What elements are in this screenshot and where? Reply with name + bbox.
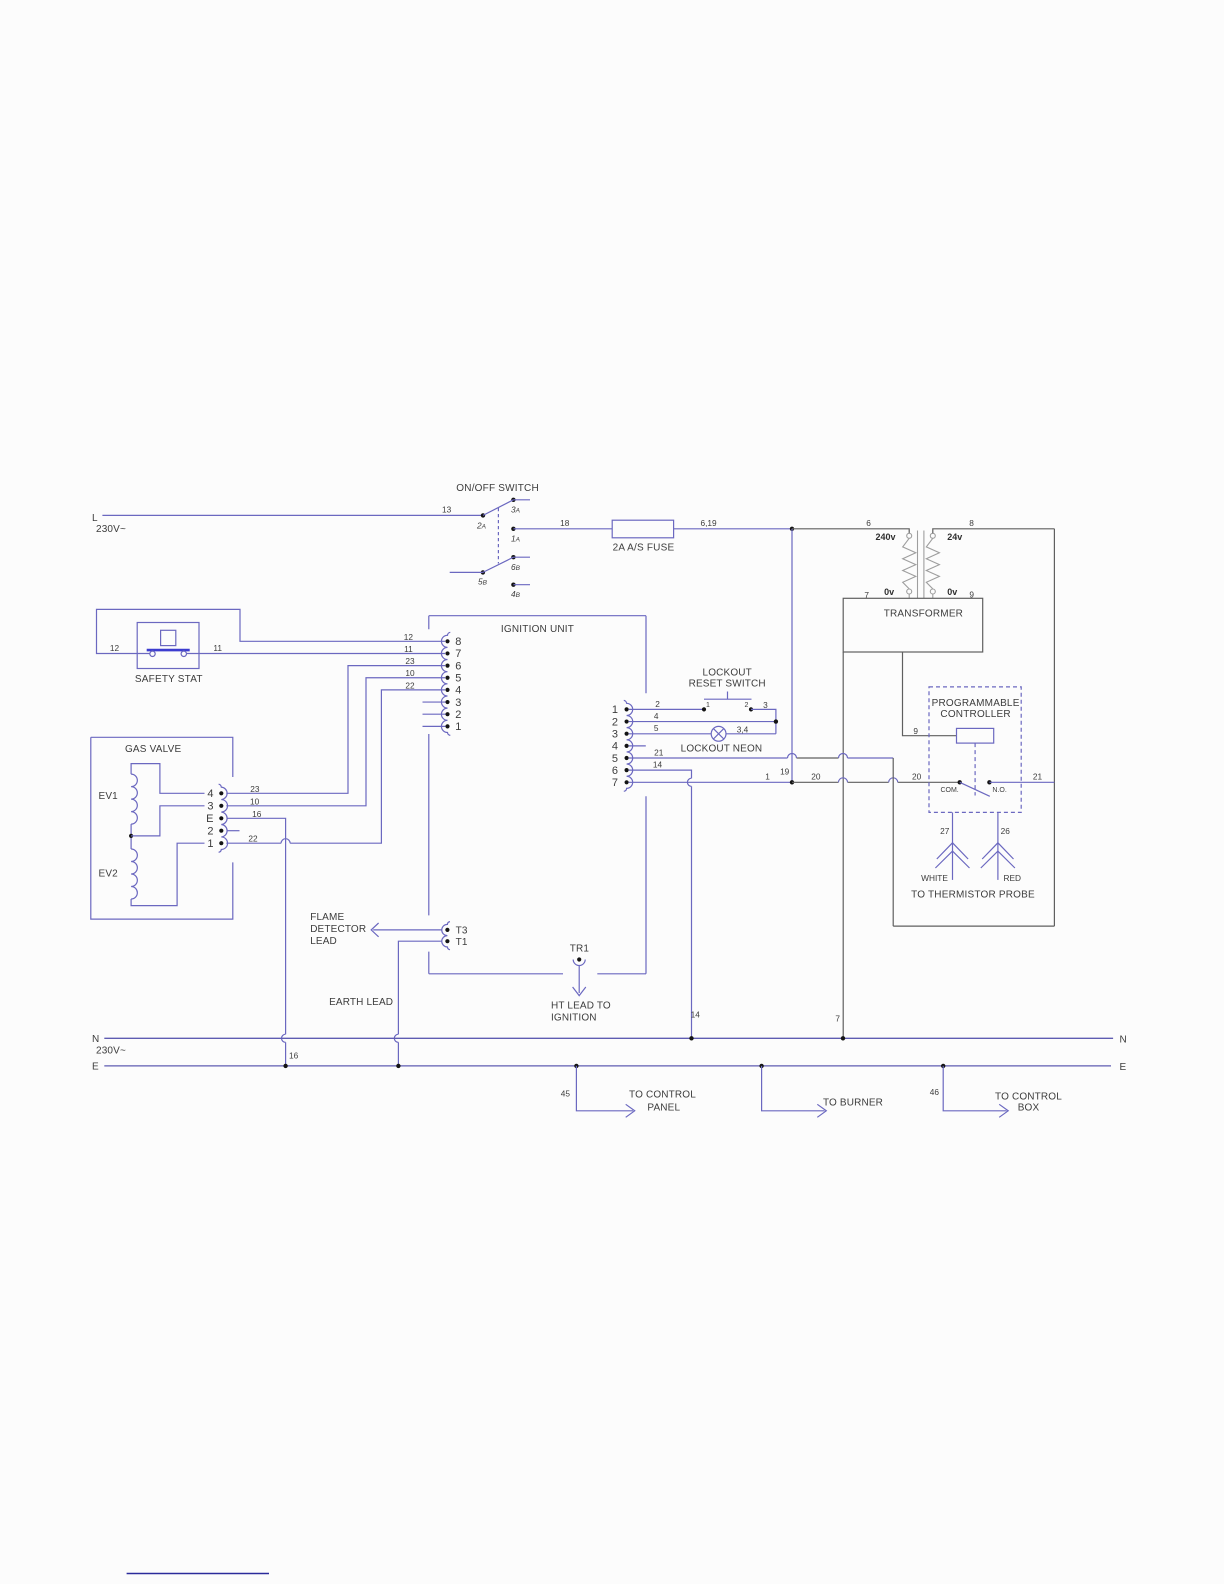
ignition output pin 4: [612, 741, 629, 753]
wire 3 reset switch to junction: [751, 709, 776, 733]
svg-text:1: 1: [455, 721, 461, 733]
svg-text:11: 11: [213, 643, 222, 653]
wire 21 vertical thermistor box left: [892, 758, 894, 926]
svg-text:230V~: 230V~: [96, 524, 126, 535]
wire 20 hop over wire 21 vertical: [889, 778, 898, 783]
svg-text:10: 10: [405, 668, 415, 678]
HT lead label: [551, 1001, 611, 1024]
svg-text:1: 1: [706, 702, 710, 709]
gas valve pin E: [206, 813, 223, 825]
wire 22 gas valve pin1 to ignition pin 4: [226, 690, 445, 843]
svg-text:EV2: EV2: [99, 869, 119, 880]
transformer T1 secondary top terminal: [930, 533, 935, 538]
transformer T1 primary winding: [903, 538, 916, 589]
svg-text:0v: 0v: [884, 587, 894, 597]
svg-text:HT LEAD TO: HT LEAD TO: [551, 1001, 611, 1012]
wire 14 hop over wire 1: [687, 778, 691, 786]
relay blade: [960, 782, 990, 796]
red lead chevron arrow: [981, 843, 1015, 880]
svg-text:PROGRAMMABLE: PROGRAMMABLE: [932, 698, 1020, 709]
gas valve connector scallops: [219, 784, 228, 852]
wire 2 pin1 to reset switch: [629, 708, 704, 710]
svg-text:6,19: 6,19: [701, 518, 718, 528]
svg-text:EV1: EV1: [99, 791, 119, 802]
node L 230V live terminal label: [92, 513, 126, 535]
wire 8 secondary to right rail: [933, 529, 1055, 533]
svg-text:PANEL: PANEL: [647, 1103, 680, 1114]
ignition output pin 2: [612, 716, 629, 728]
safety stat adjuster square: [161, 630, 176, 645]
wire 4 pin2 to junction: [629, 721, 776, 723]
wire junction to valve pin 3: [131, 806, 204, 836]
switch S1 contact 2A: [481, 513, 485, 517]
svg-text:16: 16: [289, 1051, 299, 1061]
switch S1 contact 1A: [511, 527, 515, 531]
wire into 5B: [450, 571, 483, 573]
wire 11 stat to ignition pin 7: [187, 653, 446, 655]
safety stat contact left: [150, 651, 155, 656]
wire 45 drop to control panel: [574, 1064, 635, 1118]
gas valve pin 4: [207, 788, 223, 800]
switch S1 blade 5B-6B: [483, 557, 514, 572]
wire right rail vertical: [1053, 529, 1055, 926]
svg-text:E: E: [206, 813, 213, 825]
to control panel label: [629, 1090, 696, 1114]
flame detector arrow: [371, 923, 442, 937]
svg-text:T1: T1: [456, 937, 468, 948]
wire L to on/off switch contact 2A: [102, 514, 483, 516]
relay coil U1: [957, 728, 994, 743]
wire EV1 top lead to valve pin 4: [131, 764, 204, 794]
ignition pin 6: [445, 660, 461, 672]
transformer T1 enclosure box: [843, 598, 983, 652]
svg-text:5B: 5B: [478, 577, 488, 587]
TR1 terminal: [573, 957, 585, 965]
reset switch contact left: [702, 707, 706, 711]
svg-text:RESET SWITCH: RESET SWITCH: [689, 679, 766, 690]
ignition unit box: [429, 616, 646, 974]
svg-text:WHITE: WHITE: [921, 873, 948, 883]
svg-text:TR1: TR1: [570, 944, 590, 955]
svg-text:3: 3: [455, 697, 461, 709]
safety stat box: [137, 623, 199, 669]
flame detector lead label: [310, 912, 366, 947]
svg-text:TO BURNER: TO BURNER: [823, 1098, 883, 1109]
wire stub from 4B: [513, 584, 530, 586]
svg-text:1A: 1A: [511, 534, 520, 544]
junction wire 14 on N rail: [689, 1036, 693, 1040]
svg-text:0v: 0v: [947, 587, 957, 597]
programmable controller dashed outline: [929, 687, 1021, 813]
ignition output pin 6: [612, 765, 629, 777]
svg-text:6: 6: [866, 518, 871, 528]
svg-text:TO THERMISTOR PROBE: TO THERMISTOR PROBE: [911, 889, 1035, 900]
svg-text:45: 45: [561, 1089, 571, 1099]
svg-text:3A: 3A: [511, 505, 520, 515]
svg-text:10: 10: [250, 796, 260, 806]
svg-text:12: 12: [404, 632, 414, 642]
svg-text:4B: 4B: [511, 589, 521, 599]
lockout reset switch title: [689, 668, 766, 690]
fuse F1 body: [612, 520, 673, 538]
svg-text:26: 26: [1001, 826, 1011, 836]
svg-text:DETECTOR: DETECTOR: [310, 924, 366, 935]
ignition pin 8: [445, 636, 461, 648]
wire 16 hop over N rail: [281, 1034, 285, 1042]
svg-text:22: 22: [248, 834, 258, 844]
svg-text:FLAME: FLAME: [310, 912, 344, 923]
wire EV2 bottom lead to valve pin 1: [131, 843, 204, 905]
relay coil dashed link to contact: [974, 743, 976, 795]
gas valve box: [91, 737, 233, 919]
switch S1 contact 5B: [481, 570, 485, 574]
svg-text:14: 14: [691, 1010, 701, 1020]
svg-text:3,4: 3,4: [737, 725, 749, 735]
svg-text:23: 23: [405, 656, 415, 666]
svg-text:CONTROLLER: CONTROLLER: [940, 709, 1010, 720]
thermistor box bottom: [893, 925, 1054, 927]
E rail: [104, 1065, 1111, 1067]
ignition pin 5: [445, 673, 461, 685]
svg-text:230V~: 230V~: [96, 1046, 126, 1057]
pin T3: [445, 926, 468, 937]
transformer T1 secondary bottom terminal: [930, 589, 935, 594]
transformer T1 secondary winding: [926, 538, 939, 589]
junction wire 19 and wire 20: [790, 780, 794, 784]
svg-text:20: 20: [912, 772, 922, 782]
wire EV1 to coil junction: [130, 824, 132, 849]
wire 21 gray middle segment: [797, 757, 839, 759]
svg-text:E: E: [92, 1062, 99, 1073]
svg-text:240v: 240v: [875, 532, 895, 542]
svg-text:N.O.: N.O.: [992, 787, 1006, 794]
svg-text:T3: T3: [456, 926, 468, 937]
wire 46 drop to control box: [941, 1064, 1008, 1118]
svg-text:22: 22: [405, 680, 415, 690]
wire 5 pin3 to lockout neon: [629, 733, 712, 735]
reset switch contact right: [749, 707, 753, 711]
lockout reset switch actuator: [704, 692, 752, 700]
transformer T1 secondary bottom stub: [932, 594, 934, 598]
junction earth lead on E rail: [396, 1064, 400, 1068]
junction wires 3 and 4: [774, 719, 778, 723]
wire 12 loop from ignition pin 8 to safety stat: [97, 609, 446, 653]
svg-text:2: 2: [207, 826, 213, 838]
safety stat contact right: [181, 651, 186, 656]
svg-text:4: 4: [612, 741, 618, 753]
gas valve pin 1: [207, 838, 223, 850]
svg-text:7: 7: [835, 1014, 840, 1024]
ignition unit right connector scallops: [624, 700, 633, 791]
svg-text:9: 9: [913, 726, 918, 736]
svg-text:2A A/S FUSE: 2A A/S FUSE: [613, 543, 675, 554]
junction node after fuse: [790, 527, 794, 531]
switch S1 contact 4B: [511, 583, 515, 587]
ignition pin 3: [445, 697, 461, 709]
wire 27 drop from controller: [952, 812, 954, 842]
lockout neon lamp: [711, 726, 726, 741]
svg-text:6B: 6B: [511, 562, 521, 572]
relay contact NO: [987, 780, 991, 784]
svg-text:6: 6: [455, 660, 461, 672]
wire 22 hop over earth wire: [281, 839, 290, 844]
dashed gang link of switch: [497, 508, 499, 564]
svg-text:N: N: [92, 1034, 99, 1045]
svg-text:IGNITION: IGNITION: [551, 1013, 597, 1024]
svg-text:1: 1: [612, 704, 618, 716]
svg-text:LEAD: LEAD: [310, 936, 337, 947]
to control box label: [995, 1092, 1062, 1114]
svg-text:24v: 24v: [947, 532, 962, 542]
wire stub from 6B: [513, 556, 530, 558]
svg-text:1: 1: [207, 838, 213, 850]
svg-text:TO CONTROL: TO CONTROL: [629, 1090, 696, 1101]
transformer T1 primary top terminal: [907, 533, 912, 538]
junction wire 16 on E rail: [283, 1064, 287, 1068]
svg-text:4: 4: [654, 711, 659, 721]
wire 16 earth from pin E to E rail: [227, 818, 286, 1066]
svg-text:4: 4: [455, 685, 461, 697]
ignition output pin 7: [612, 777, 629, 789]
T3 T1 connector scallops: [442, 922, 450, 950]
svg-text:BOX: BOX: [1018, 1102, 1040, 1113]
solenoid EV2 coil: [131, 849, 137, 899]
svg-text:23: 23: [250, 784, 260, 794]
svg-text:L: L: [92, 513, 98, 524]
wire 10 gas valve pin3 to ignition pin 5: [226, 678, 445, 806]
ignition pin 2: [445, 709, 461, 721]
transformer T1 primary bottom stub: [908, 594, 910, 598]
svg-text:2A: 2A: [476, 521, 486, 531]
svg-text:46: 46: [930, 1087, 940, 1097]
svg-text:12: 12: [110, 643, 120, 653]
svg-text:3: 3: [763, 700, 768, 710]
svg-text:5: 5: [654, 723, 659, 733]
wire 19 vertical drop: [791, 529, 793, 783]
transformer T1 primary bottom terminal: [907, 589, 912, 594]
svg-text:18: 18: [560, 518, 570, 528]
svg-text:11: 11: [404, 644, 413, 654]
wire 20 junction to relay COM: [792, 781, 958, 783]
transformer T1 core: [918, 531, 924, 599]
wire 1B from 1A to fuse: [513, 528, 612, 530]
svg-text:4: 4: [207, 788, 213, 800]
ignition output pin 1: [612, 704, 629, 716]
svg-text:3: 3: [207, 801, 213, 813]
svg-text:2: 2: [455, 709, 461, 721]
ignition output pin 4 stub: [629, 745, 646, 747]
wire 23 gas valve pin4 to ignition pin 6: [226, 666, 445, 794]
wire 14 pin6 to neutral: [629, 770, 692, 1038]
svg-text:2: 2: [745, 702, 749, 709]
relay contact COM: [958, 780, 962, 784]
wire 6 junction to transformer primary: [792, 529, 909, 533]
svg-text:LOCKOUT NEON: LOCKOUT NEON: [681, 744, 763, 755]
switch S1 contact 3A: [511, 498, 515, 502]
junction wire 7 on N rail: [841, 1036, 845, 1040]
svg-text:5: 5: [455, 673, 461, 685]
svg-text:RED: RED: [1004, 873, 1022, 883]
svg-text:8: 8: [969, 518, 974, 528]
svg-text:IGNITION UNIT: IGNITION UNIT: [501, 624, 574, 635]
wire 21 NO to right rail: [989, 781, 1054, 783]
safety stat bridge bar: [147, 649, 190, 652]
svg-text:21: 21: [654, 748, 664, 758]
ignition pin 3 stub: [423, 701, 446, 703]
wire 1 pin7 to junction 19: [629, 781, 792, 783]
svg-text:TO CONTROL: TO CONTROL: [995, 1092, 1062, 1103]
svg-text:7: 7: [612, 777, 618, 789]
HT lead arrow: [573, 966, 586, 996]
gas valve pin 2 stub: [228, 830, 240, 832]
pin T1: [445, 937, 468, 948]
wire 9 transformer to controller: [903, 652, 957, 736]
junction of EV1 and EV2: [129, 834, 133, 838]
wire 21 hop over wire 19: [788, 754, 797, 759]
ignition output pin 5: [612, 753, 629, 765]
svg-text:5: 5: [612, 753, 618, 765]
svg-text:21: 21: [1033, 772, 1043, 782]
wire drop to burner: [759, 1064, 826, 1118]
white lead chevron arrow: [935, 843, 969, 880]
svg-text:6: 6: [612, 765, 618, 777]
svg-text:7: 7: [455, 648, 461, 660]
ignition output pin 3: [612, 729, 629, 741]
ignition pin 1: [445, 721, 461, 733]
wire 20 hop over wire 7: [839, 778, 848, 783]
wire 26 drop from controller: [997, 812, 999, 842]
svg-text:EARTH LEAD: EARTH LEAD: [329, 997, 393, 1008]
svg-text:2: 2: [612, 716, 618, 728]
wire stub from 3A: [513, 499, 530, 501]
svg-text:27: 27: [940, 826, 950, 836]
svg-text:8: 8: [455, 636, 461, 648]
svg-text:SAFETY STAT: SAFETY STAT: [135, 674, 203, 685]
wire 3,4 neon to junction: [726, 733, 776, 735]
svg-text:LOCKOUT: LOCKOUT: [703, 668, 752, 679]
wire 21 hop over wire 7: [839, 754, 848, 759]
switch S1 blade 2A-3A: [483, 500, 513, 516]
svg-text:GAS VALVE: GAS VALVE: [125, 744, 182, 755]
svg-text:COM.: COM.: [940, 787, 958, 794]
wire 7 transformer to neutral: [842, 652, 844, 1038]
svg-text:3: 3: [612, 729, 618, 741]
programmable controller name: [932, 698, 1020, 720]
wire 21 pin5 to thermistor loop: [629, 757, 894, 759]
gas valve pin 2: [207, 826, 223, 838]
svg-text:ON/OFF SWITCH: ON/OFF SWITCH: [456, 483, 539, 494]
footer rule: [127, 1573, 269, 1575]
svg-text:2: 2: [655, 699, 660, 709]
svg-text:19: 19: [780, 767, 790, 777]
svg-text:E: E: [1120, 1062, 1127, 1073]
ignition pin 7: [445, 648, 461, 660]
switch S1 contact 6B: [511, 555, 515, 559]
ignition pin 1 stub: [423, 725, 446, 727]
N rail: [104, 1037, 1113, 1039]
svg-text:1: 1: [765, 772, 770, 782]
ignition pin 4: [445, 685, 461, 697]
svg-text:20: 20: [811, 772, 821, 782]
svg-text:14: 14: [653, 760, 663, 770]
ignition unit left connector scallops: [441, 632, 450, 735]
ignition pin 2 stub: [423, 713, 446, 715]
svg-text:TRANSFORMER: TRANSFORMER: [884, 609, 963, 620]
node N label left: [92, 1034, 126, 1057]
solenoid EV1 coil: [131, 774, 137, 824]
earth lead hop over N rail: [394, 1034, 398, 1042]
gas valve pin 3: [207, 801, 223, 813]
earth lead wire from T1 to E rail: [398, 941, 442, 1066]
wire fuse to node 6,19: [674, 528, 792, 530]
svg-text:16: 16: [252, 809, 262, 819]
svg-text:13: 13: [442, 505, 452, 515]
svg-text:N: N: [1120, 1034, 1127, 1045]
